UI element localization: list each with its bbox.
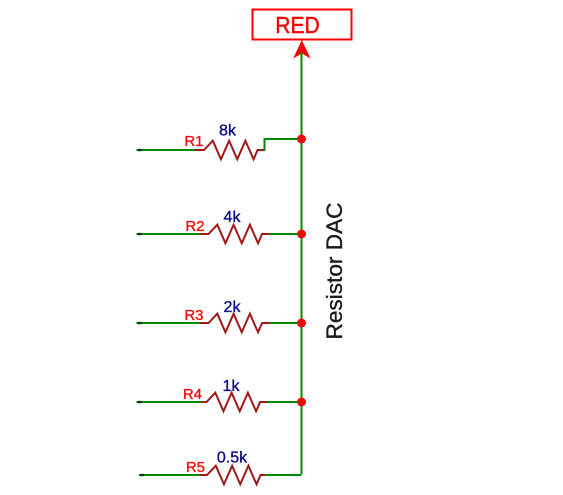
- wire R1 to bus (jog up): [265, 139, 302, 151]
- svg-text:2k: 2k: [224, 299, 242, 316]
- svg-text:R5: R5: [186, 459, 205, 476]
- wire R2 left: [137, 233, 201, 235]
- wire vertical bus: [301, 52, 303, 474]
- svg-text:R1: R1: [184, 133, 203, 150]
- wire R5 left: [139, 474, 200, 476]
- terminal R4 left end: [137, 401, 142, 404]
- resistor R5: [200, 466, 265, 485]
- wire R3 left: [137, 322, 201, 324]
- resistor R1: [196, 141, 265, 160]
- resistor R3: [200, 314, 269, 333]
- arrow into RED node: [293, 40, 310, 59]
- terminal R3 left end: [137, 322, 142, 325]
- terminal R1 left end: [137, 149, 142, 152]
- junction R4: [297, 398, 306, 407]
- node RED label box: [253, 10, 352, 40]
- svg-text:R4: R4: [183, 386, 202, 403]
- wire R4 left: [137, 401, 203, 403]
- svg-text:R3: R3: [184, 307, 203, 324]
- wire R5 to bus corner: [265, 474, 301, 475]
- svg-text:R2: R2: [185, 218, 204, 235]
- junction R1: [297, 135, 306, 144]
- wire R3 to bus: [269, 322, 302, 324]
- wire R1 left: [137, 149, 196, 151]
- junction R3: [297, 319, 306, 328]
- terminal R2 left end: [137, 233, 142, 236]
- svg-text:Resistor DAC: Resistor DAC: [322, 202, 347, 339]
- wire R2 to bus: [269, 233, 302, 235]
- svg-text:1k: 1k: [223, 378, 241, 395]
- terminal R5 left end: [139, 474, 144, 477]
- svg-text:RED: RED: [275, 12, 320, 38]
- wire R4 to bus: [267, 401, 302, 403]
- junction R2: [297, 230, 306, 239]
- svg-text:4k: 4k: [224, 209, 242, 226]
- svg-text:8k: 8k: [219, 123, 237, 140]
- resistor R2: [200, 225, 269, 244]
- svg-text:0.5k: 0.5k: [217, 450, 248, 467]
- resistor R4: [202, 393, 267, 412]
